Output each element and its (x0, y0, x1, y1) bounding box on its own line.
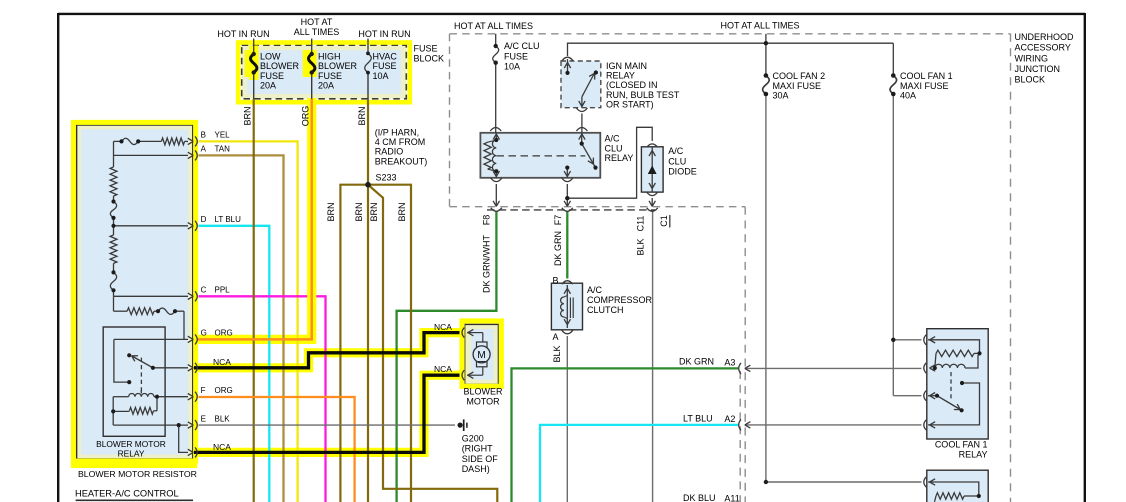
wire BRN S233 branch 3 (370, 186, 498, 502)
fuse block highlight (238, 43, 410, 103)
wire BLK from C11 down (652, 212, 654, 502)
label G200 RIGHT SIDE OF DASH (462, 434, 499, 474)
clutch pin B arc (562, 281, 573, 285)
svg-text:MAXI FUSE: MAXI FUSE (773, 81, 822, 91)
resistor chain top row to pin B (114, 138, 189, 145)
ground G200 (464, 419, 467, 431)
wire row pin G (114, 338, 188, 340)
label FUSE BLOCK (414, 43, 445, 63)
svg-text:FUSE: FUSE (260, 71, 284, 81)
svg-text:DK GRN: DK GRN (679, 356, 714, 366)
svg-text:LT BLU: LT BLU (683, 413, 713, 423)
wire row pin E (113, 424, 188, 426)
label I/P HARN 4 CM FROM RADIO BREAKOUT (375, 127, 428, 166)
svg-text:BLOCK: BLOCK (1015, 75, 1046, 85)
blower relay coil (129, 390, 188, 397)
wire DK GRN from F7 to compressor clutch (566, 212, 568, 279)
svg-text:4 CM FROM: 4 CM FROM (375, 137, 426, 147)
wire row pin D (114, 225, 189, 227)
blower motor pin 2 (462, 370, 464, 380)
wire LT BLU (199, 226, 270, 502)
svg-text:BRN: BRN (397, 202, 407, 221)
svg-text:ORG: ORG (215, 386, 233, 395)
wire junction block A3 to cool fan 1 relay (745, 367, 922, 369)
pin labels B YEL (201, 131, 231, 140)
svg-text:(I/P HARN,: (I/P HARN, (375, 127, 419, 137)
resistor element 2 (110, 226, 117, 273)
pin D symbol (188, 226, 194, 229)
svg-text:10A: 10A (504, 62, 520, 72)
blower motor relay box (103, 327, 165, 436)
svg-text:SIDE OF: SIDE OF (462, 454, 499, 464)
svg-text:(RIGHT: (RIGHT (462, 444, 493, 454)
svg-text:ALL TIMES: ALL TIMES (294, 27, 340, 37)
diode A/C CLU DIODE box (641, 147, 663, 192)
pin NCA upper symbol (188, 368, 194, 371)
wire NCA lower highlight (194, 375, 460, 452)
svg-text:UNDERHOOD: UNDERHOOD (1015, 32, 1075, 42)
wire NCA lower (194, 375, 460, 452)
svg-text:BRN: BRN (243, 106, 253, 125)
svg-text:RELAY: RELAY (605, 153, 634, 163)
svg-text:HOT IN RUN: HOT IN RUN (217, 29, 269, 39)
svg-text:F7: F7 (553, 215, 563, 226)
svg-text:ACCESSORY: ACCESSORY (1015, 43, 1071, 53)
svg-text:G200: G200 (462, 434, 484, 444)
label A/C CLU FUSE 10A (504, 41, 540, 71)
label UNDERHOOD ACCESSORY WIRING JUNCTION BLOCK (1015, 32, 1075, 84)
fuse COOL FAN 1 MAXI FUSE 40A (890, 43, 897, 94)
terminal A2 pin (739, 419, 751, 430)
svg-text:FUSE: FUSE (318, 71, 342, 81)
fuse HIGH BLOWER FUSE 20A (308, 39, 314, 73)
svg-text:BRN: BRN (357, 106, 367, 125)
svg-text:HOT IN RUN: HOT IN RUN (358, 29, 410, 39)
wire DK GRN to terminal A3 (512, 368, 739, 502)
cool fan 2 relay pin 1 (924, 477, 926, 487)
svg-text:COOL FAN 2: COOL FAN 2 (773, 71, 826, 81)
svg-text:DK GRN: DK GRN (553, 231, 563, 266)
svg-text:C1: C1 (659, 215, 669, 227)
svg-text:BLOWER MOTOR: BLOWER MOTOR (96, 439, 166, 449)
wire hot at all times feed rail (568, 34, 894, 56)
svg-text:COOL FAN 1: COOL FAN 1 (935, 439, 988, 449)
pin NCA lower symbol (188, 452, 194, 455)
label COOL FAN 2 MAXI FUSE 30A (773, 71, 826, 100)
fuse HVAC FUSE 10A (365, 39, 372, 73)
svg-text:FUSE: FUSE (414, 43, 438, 53)
wire row pin C (114, 295, 189, 297)
junction dots resistor chain (111, 139, 181, 427)
pin A symbol (188, 155, 194, 158)
svg-text:LOW: LOW (260, 52, 281, 62)
svg-text:OR START): OR START) (606, 100, 654, 110)
wire high blower fuse to box edge (311, 73, 313, 100)
svg-text:ORG: ORG (215, 329, 233, 338)
cool fan 1 relay pin 3 (924, 391, 926, 401)
svg-text:LT BLU: LT BLU (215, 215, 242, 224)
label COOL FAN 1 RELAY (935, 439, 988, 459)
label LOW BLOWER FUSE 20A (260, 52, 300, 91)
wire a/c clu relay to diode (567, 127, 652, 198)
svg-text:CLU: CLU (605, 143, 623, 153)
pin G symbol (188, 339, 194, 342)
svg-text:NCA: NCA (434, 322, 452, 332)
svg-text:DK BLU: DK BLU (683, 493, 716, 502)
svg-text:PPL: PPL (215, 286, 231, 295)
svg-text:HOT AT: HOT AT (301, 17, 333, 27)
svg-text:CLU: CLU (668, 156, 686, 166)
svg-text:B: B (201, 131, 206, 140)
svg-text:F8: F8 (482, 215, 492, 226)
svg-text:BREAKOUT): BREAKOUT) (375, 156, 428, 166)
wire BRN S233 branch 2 (367, 185, 369, 502)
svg-text:BLK: BLK (552, 345, 562, 362)
wire BRN S233 branch 1 (340, 185, 368, 502)
label LT BLU terminal A2 (683, 413, 735, 424)
svg-text:TAN: TAN (215, 145, 231, 154)
svg-text:RUN, BULB TEST: RUN, BULB TEST (606, 90, 680, 100)
blower relay switch (132, 356, 153, 392)
svg-text:WIRING: WIRING (1015, 53, 1049, 63)
svg-text:HOT AT ALL TIMES: HOT AT ALL TIMES (720, 21, 799, 31)
wire hvac fuse to box edge (367, 73, 369, 99)
pin labels D LT BLU (201, 215, 242, 224)
svg-text:DIODE: DIODE (668, 167, 697, 177)
relay IGN MAIN RELAY box (561, 61, 601, 108)
svg-text:M: M (477, 350, 485, 361)
svg-text:A/C: A/C (587, 285, 603, 295)
thermal limiter 1 (110, 202, 116, 226)
cool fan 1 relay pin 2 (924, 363, 926, 373)
pin labels C PPL (201, 286, 231, 295)
wire ORG highlight patch at PPL crossing (307, 290, 316, 304)
svg-text:G: G (201, 329, 207, 338)
wire a/c clu relay coil to F8 (491, 178, 502, 211)
svg-text:RELAY: RELAY (606, 71, 635, 81)
wire low blower fuse to box edge (253, 73, 255, 100)
label DK GRN terminal A3 (679, 356, 735, 367)
wire cool fan 1 fuse to relay (893, 94, 921, 396)
svg-text:(CLOSED IN: (CLOSED IN (606, 80, 658, 90)
svg-text:COOL FAN 1: COOL FAN 1 (900, 71, 953, 81)
thermal limiter 2 (110, 272, 116, 296)
svg-text:BRN: BRN (326, 202, 336, 221)
svg-text:BRN: BRN (369, 202, 379, 221)
svg-text:RADIO: RADIO (375, 147, 404, 157)
svg-text:FUSE: FUSE (373, 61, 397, 71)
svg-text:IGN MAIN: IGN MAIN (606, 61, 647, 71)
pin F symbol (188, 397, 194, 400)
label A/C CLU RELAY (605, 134, 634, 163)
svg-text:BLK: BLK (636, 238, 646, 255)
svg-text:F: F (201, 386, 206, 395)
wire BRN from low blower fuse (253, 99, 255, 502)
label BLOWER MOTOR RELAY (96, 439, 166, 459)
svg-text:A11: A11 (724, 494, 739, 502)
svg-text:A: A (552, 332, 558, 342)
svg-text:C11: C11 (636, 216, 646, 232)
wire cool fan 2 fuse down (765, 94, 767, 482)
fuse A/C CLU FUSE 10A (490, 34, 501, 140)
solenoid A/C COMPRESSOR CLUTCH internals (561, 285, 574, 328)
label HEATER-A/C CONTROL underline (76, 499, 193, 501)
wire ORG highlight (high blower fuse to pin G) (196, 50, 312, 339)
svg-text:COMPRESSOR: COMPRESSOR (587, 295, 653, 305)
svg-text:BLOWER: BLOWER (463, 387, 503, 397)
pin labels G ORG (201, 329, 233, 338)
wire LT BLU to terminal A2 (540, 425, 738, 502)
svg-text:BLOWER MOTOR RESISTOR: BLOWER MOTOR RESISTOR (78, 469, 197, 479)
underhood junction block dashed outline (450, 34, 1011, 502)
svg-text:NCA: NCA (434, 364, 452, 374)
fuse LOW BLOWER FUSE 20A (250, 39, 256, 73)
blower motor box (465, 324, 499, 384)
svg-text:S233: S233 (376, 173, 397, 183)
label A/C CLU DIODE (668, 146, 697, 177)
connector C1 dashed line (487, 209, 655, 211)
cool fan 1 relay pin 4 (924, 420, 926, 430)
svg-text:DASH): DASH) (462, 464, 490, 474)
svg-text:RELAY: RELAY (959, 449, 988, 459)
relay COOL FAN 2 RELAY internals (928, 482, 979, 502)
wire relay common to pin NCA (153, 367, 188, 369)
svg-text:JUNCTION: JUNCTION (1015, 64, 1061, 74)
low blower fuse highlight (252, 46, 254, 81)
diode A/C CLU DIODE internals (647, 144, 658, 211)
svg-text:RELAY: RELAY (118, 449, 145, 459)
relay COOL FAN 2 RELAY box (927, 470, 988, 502)
svg-text:NCA: NCA (213, 442, 231, 452)
clutch pin A arc (562, 330, 573, 334)
solenoid A/C COMPRESSOR CLUTCH box (551, 283, 582, 330)
wire cool fan 2 feed to relay 2 (766, 481, 922, 483)
svg-text:C: C (201, 286, 207, 295)
svg-text:10A: 10A (373, 71, 389, 81)
wire junction block A2 to cool fan 1 relay (745, 424, 922, 426)
wire a/c clu relay switch to F7 (562, 178, 573, 211)
blower motor highlight box (462, 321, 501, 386)
terminal A3 pin (739, 363, 751, 374)
svg-text:A2: A2 (724, 414, 735, 424)
pin E symbol (188, 425, 194, 428)
relay A/C CLU RELAY internals (484, 133, 595, 178)
svg-text:BLOWER: BLOWER (318, 61, 358, 71)
pin labels F ORG (201, 386, 233, 395)
wire ORG core (high blower fuse to pin G) (197, 99, 312, 339)
ground G200 dot (458, 423, 463, 428)
label connector C1 (659, 215, 670, 228)
label HOT AT ALL TIMES (fuse block) (294, 17, 340, 37)
svg-text:MAXI FUSE: MAXI FUSE (900, 81, 949, 91)
label IGN MAIN RELAY (CLOSED IN RUN, BULB TEST OR START) (606, 61, 680, 110)
svg-text:NCA: NCA (213, 357, 231, 367)
relay contact feed from G row (114, 339, 129, 382)
pin labels E BLK (201, 414, 231, 423)
pin labels A TAN (201, 145, 231, 154)
label DK BLU terminal A11 (683, 493, 740, 502)
fuse COOL FAN 2 MAXI FUSE 30A (763, 43, 770, 94)
fuse block box (242, 45, 407, 99)
svg-text:BLK: BLK (215, 414, 231, 423)
wire TAN (199, 155, 284, 502)
svg-text:HVAC: HVAC (373, 52, 398, 62)
wire DK GRN/WHT from F8 (397, 212, 497, 502)
cool fan 1 relay pin 1 (924, 335, 926, 345)
wire NCA upper highlight (194, 333, 460, 368)
svg-text:BLOCK: BLOCK (414, 53, 445, 63)
blower relay coil resistor (113, 397, 157, 425)
svg-text:A: A (201, 145, 207, 154)
svg-text:YEL: YEL (215, 131, 231, 140)
relay A/C CLU RELAY box (480, 133, 600, 178)
wire BRN from hvac fuse to splice S233 (367, 99, 369, 185)
svg-text:CLUTCH: CLUTCH (587, 305, 624, 315)
svg-text:DK GRN/WHT: DK GRN/WHT (482, 235, 492, 293)
svg-text:20A: 20A (318, 80, 334, 90)
svg-text:BLOWER: BLOWER (260, 61, 300, 71)
wire BRN S233 branch 4 (368, 185, 411, 502)
svg-text:HEATER-A/C CONTROL: HEATER-A/C CONTROL (75, 489, 179, 499)
wire BLK from compressor clutch (566, 336, 568, 502)
label HIGH BLOWER FUSE 20A (318, 52, 358, 91)
wire pin E junction to pin NCA lower (179, 425, 188, 452)
junction dots cool fan (764, 73, 982, 498)
label HVAC FUSE 10A (373, 52, 398, 81)
wire row pin A (114, 154, 189, 156)
svg-text:FUSE: FUSE (504, 51, 528, 61)
svg-text:A3: A3 (724, 358, 735, 368)
relay COOL FAN 1 RELAY internals (928, 340, 980, 425)
svg-text:A/C: A/C (668, 146, 684, 156)
svg-text:HIGH: HIGH (318, 52, 341, 62)
splice S233 dot (365, 182, 371, 188)
wire BLK from pin E to ground G200 (199, 424, 456, 426)
label A/C COMPRESSOR CLUTCH (587, 285, 653, 315)
svg-text:30A: 30A (773, 91, 789, 101)
svg-text:BRN: BRN (354, 202, 364, 221)
svg-text:A/C: A/C (605, 134, 621, 144)
label COOL FAN 1 MAXI FUSE 40A (900, 71, 953, 100)
pin B symbol (188, 141, 194, 144)
wire PPL (199, 296, 326, 502)
blower motor pin 1 (462, 328, 464, 338)
relay COOL FAN 1 RELAY box (927, 329, 988, 439)
wire ORG from pin F (199, 397, 355, 502)
resistor element 1 (110, 141, 117, 201)
wire YEL (199, 141, 298, 502)
svg-text:E: E (201, 414, 206, 423)
pin C symbol (188, 296, 194, 299)
junction dots a/c area (494, 41, 769, 200)
junction dots fuse block (252, 52, 370, 75)
svg-text:B: B (552, 276, 558, 286)
relay IGN MAIN RELAY internals (562, 57, 595, 139)
blower motor resistor box (77, 125, 193, 459)
blower motor M symbol (467, 333, 490, 376)
svg-text:40A: 40A (900, 91, 916, 101)
wire NCA upper (194, 333, 460, 368)
svg-text:20A: 20A (260, 80, 276, 90)
svg-text:A/C CLU: A/C CLU (504, 41, 540, 51)
svg-text:ORG: ORG (301, 106, 311, 127)
svg-text:D: D (201, 215, 207, 224)
label BLOWER MOTOR (463, 387, 503, 407)
blower motor resistor highlight box (71, 122, 197, 468)
svg-text:HOT AT ALL TIMES: HOT AT ALL TIMES (454, 21, 533, 31)
svg-text:MOTOR: MOTOR (466, 397, 500, 407)
resistor element 3 with thermal limiter (114, 296, 185, 339)
